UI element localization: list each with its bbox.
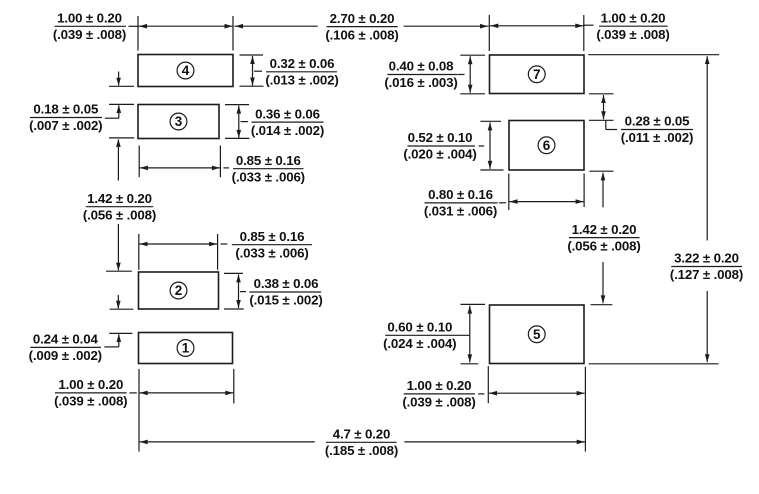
label 2.70 top: [325, 11, 398, 43]
svg-text:0.85 ± 0.16: 0.85 ± 0.16: [236, 153, 301, 168]
svg-text:1.00 ± 0.20: 1.00 ± 0.20: [601, 10, 666, 25]
dim 3.22 overall height: [588, 55, 719, 364]
label 1.00 top-right: [596, 10, 669, 42]
dim 1.42 right gap pad6-pad5: [590, 171, 614, 305]
svg-text:1.00 ± 0.20: 1.00 ± 0.20: [57, 11, 122, 26]
svg-text:0.38 ± 0.06: 0.38 ± 0.06: [254, 276, 319, 291]
svg-text:(.033 ± .006): (.033 ± .006): [235, 245, 308, 260]
dim 0.28 gap pad7-pad6: [589, 94, 617, 130]
svg-text:(.024 ± .004): (.024 ± .004): [383, 336, 456, 351]
svg-text:(.106 ± .008): (.106 ± .008): [325, 27, 398, 42]
dim 0.32 pad4 height: [240, 55, 264, 86]
svg-text:(.009 ± .002): (.009 ± .002): [29, 348, 102, 363]
pad 3 (rect3): [138, 105, 219, 139]
leader top-left label: [129, 25, 138, 27]
svg-text:1.00 ± 0.20: 1.00 ± 0.20: [407, 378, 472, 393]
svg-text:(.056 ± .008): (.056 ± .008): [83, 207, 156, 222]
pad 4 (rect4): [138, 55, 233, 87]
dim 0.85 pad2 width: [139, 234, 228, 270]
label 1.00 pad5: [402, 378, 475, 410]
svg-text:0.32 ± 0.06: 0.32 ± 0.06: [270, 56, 335, 71]
svg-text:(.031 ± .006): (.031 ± .006): [424, 204, 497, 219]
svg-text:(.039 ± .008): (.039 ± .008): [54, 394, 127, 409]
svg-text:0.40 ± 0.08: 0.40 ± 0.08: [389, 59, 454, 74]
label 0.36 pad3: [251, 106, 324, 138]
svg-text:4.7 ± 0.20: 4.7 ± 0.20: [333, 427, 391, 442]
pad 1 (rect1): [139, 333, 233, 364]
pad 2 (rect2): [139, 272, 219, 309]
svg-text:(.016 ± .003): (.016 ± .003): [384, 75, 457, 90]
dim 0.80 pad6 width: [499, 174, 584, 211]
label 0.32 pad4: [265, 56, 338, 88]
svg-text:6: 6: [543, 138, 551, 153]
dim 2.70 top-middle: [235, 24, 489, 29]
svg-text:(.033 ± .006): (.033 ± .006): [232, 169, 305, 184]
leader pad5 label: [478, 393, 484, 395]
dim 1.00 top-right pad7 width: [489, 15, 584, 51]
dim 1.00 pad5 width: [488, 366, 584, 403]
svg-text:1.42 ± 0.20: 1.42 ± 0.20: [87, 191, 152, 206]
label 0.28 gap: [621, 114, 694, 146]
svg-text:0.24 ± 0.04: 0.24 ± 0.04: [33, 332, 99, 347]
label 0.85 pad2: [232, 229, 312, 261]
svg-text:(.007 ± .002): (.007 ± .002): [29, 118, 102, 133]
svg-text:0.60 ± 0.10: 0.60 ± 0.10: [387, 320, 452, 335]
svg-text:7: 7: [533, 67, 541, 82]
svg-text:(.185 ± .008): (.185 ± .008): [325, 443, 398, 458]
label 1.00 pad1: [54, 377, 127, 409]
svg-text:0.85 ± 0.16: 0.85 ± 0.16: [240, 229, 305, 244]
pad 7 (rect7): [490, 55, 585, 94]
pad 5 (rect5): [490, 305, 585, 364]
svg-text:5: 5: [533, 327, 541, 342]
svg-text:(.039 ± .008): (.039 ± .008): [596, 27, 669, 42]
svg-text:1: 1: [182, 341, 190, 356]
label 4.7 overall: [325, 427, 398, 459]
svg-text:2.70 ± 0.20: 2.70 ± 0.20: [330, 11, 395, 26]
label 0.60 pad5: [383, 320, 470, 352]
svg-text:(.039 ± .008): (.039 ± .008): [402, 395, 475, 410]
svg-text:0.52 ± 0.10: 0.52 ± 0.10: [408, 130, 473, 145]
dim 1.00 top-left pad4 width: [138, 16, 233, 51]
label 3.22 overall: [670, 251, 743, 283]
svg-text:(.127 ± .008): (.127 ± .008): [670, 267, 743, 282]
dim 4.7 overall width: [140, 367, 586, 452]
dim 0.85 pad3 width: [139, 146, 229, 178]
dim 0.24 gap pad2-pad1: [104, 295, 133, 347]
dim 0.36 pad3 height: [225, 105, 250, 139]
label 0.52 pad6: [403, 130, 476, 162]
label 0.24 gap: [29, 332, 102, 364]
leader pad1 label: [130, 392, 137, 394]
dim 0.38 pad2 height: [224, 273, 246, 309]
dim 0.18 gap pad4-pad3: [105, 72, 134, 119]
dim 0.52 pad6 height: [479, 121, 504, 170]
svg-text:3.22 ± 0.20: 3.22 ± 0.20: [674, 251, 739, 266]
svg-text:0.18 ± 0.05: 0.18 ± 0.05: [33, 102, 99, 117]
label 1.42 left: [83, 191, 156, 223]
svg-text:3: 3: [175, 114, 183, 129]
label 1.00 top-left: [53, 11, 126, 43]
dim 0.60 pad5 height: [461, 304, 486, 363]
svg-text:4: 4: [182, 63, 190, 78]
svg-text:1.42 ± 0.20: 1.42 ± 0.20: [572, 222, 637, 237]
label 0.18 gap: [29, 102, 102, 134]
svg-text:(.014 ± .002): (.014 ± .002): [251, 123, 324, 138]
label 0.80 pad6: [424, 187, 498, 219]
label 0.85 pad3: [232, 153, 305, 185]
svg-text:0.28 ± 0.05: 0.28 ± 0.05: [625, 114, 691, 129]
svg-text:(.011 ± .002): (.011 ± .002): [621, 130, 694, 145]
label 1.42 right: [567, 222, 640, 254]
dim 0.40 pad7 height: [458, 55, 486, 94]
dim 1.00 pad1 width: [139, 369, 234, 452]
svg-text:2: 2: [175, 283, 183, 298]
svg-text:(.039 ± .008): (.039 ± .008): [53, 27, 126, 42]
label 0.38 pad2: [249, 276, 322, 308]
svg-text:(.013 ± .002): (.013 ± .002): [265, 73, 338, 88]
svg-text:0.36 ± 0.06: 0.36 ± 0.06: [255, 106, 320, 121]
svg-text:0.80 ± 0.16: 0.80 ± 0.16: [428, 187, 493, 202]
pad 6 (rect6): [509, 121, 584, 171]
svg-text:(.015 ± .002): (.015 ± .002): [249, 293, 322, 308]
leader top-right label: [584, 24, 594, 26]
svg-text:(.056 ± .008): (.056 ± .008): [567, 238, 640, 253]
dim 1.42 left gap pad3-pad2: [106, 138, 134, 271]
svg-text:1.00 ± 0.20: 1.00 ± 0.20: [58, 377, 123, 392]
label 0.40 pad7: [384, 59, 457, 91]
svg-text:(.020 ± .004): (.020 ± .004): [403, 147, 476, 162]
